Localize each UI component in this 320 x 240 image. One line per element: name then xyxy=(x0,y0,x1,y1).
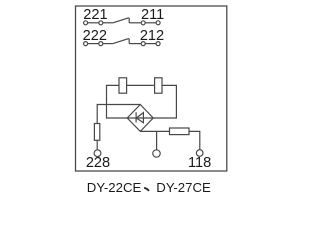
svg-text:228: 228 xyxy=(86,155,110,171)
contact row 1: wire 211 right xyxy=(145,22,156,24)
coil winding 1 xyxy=(119,78,127,93)
wire: terminal 228 branch to rectifier top xyxy=(97,105,140,124)
terminal 228 circle xyxy=(94,150,101,157)
contact row 2: wire 212 right xyxy=(145,43,156,45)
contact row 2: wire to blade xyxy=(103,43,113,45)
contact row 1: wire right xyxy=(129,22,141,24)
middle terminal circle xyxy=(153,150,160,157)
contact row 2: fixed contact tick xyxy=(128,39,130,44)
svg-text:222: 222 xyxy=(83,28,107,44)
contact row 1 terminal circles xyxy=(84,21,88,25)
svg-text:211: 211 xyxy=(141,7,164,23)
wire resistor to terminal 228 xyxy=(96,140,98,149)
diode axis line inside diamond xyxy=(127,117,153,119)
wire: right leg of coil loop xyxy=(153,85,176,118)
contact row 1: wire to blade xyxy=(103,22,113,24)
coil winding 2 xyxy=(155,78,162,93)
diode cathode bar xyxy=(135,112,137,122)
contact row 1: wire 221 left xyxy=(88,22,99,24)
wire: rectifier bottom to right xyxy=(140,130,169,132)
wire between windings xyxy=(127,84,155,86)
wire resistor to terminal 118 xyxy=(189,131,200,149)
resistor R (228 branch) xyxy=(94,124,99,141)
svg-text:221: 221 xyxy=(83,7,107,23)
resistor (118 branch) xyxy=(170,128,190,135)
contact row 2: wire right xyxy=(129,43,141,45)
contact row 1: fixed contact tick xyxy=(128,18,130,23)
contact row 2 terminal circles xyxy=(84,42,88,46)
contact row 1: switch blade xyxy=(113,18,129,23)
wire: left leg of coil loop xyxy=(107,85,128,118)
wire: drop to middle terminal xyxy=(156,131,158,149)
caption ideographic comma xyxy=(145,188,149,190)
rectifier bridge diamond xyxy=(127,105,153,132)
diode triangle xyxy=(136,113,143,123)
svg-text:118: 118 xyxy=(188,155,211,171)
contact row 2: switch blade xyxy=(113,39,129,44)
svg-text:212: 212 xyxy=(140,28,164,44)
svg-text:DY-22CE: DY-22CE xyxy=(87,180,142,195)
svg-text:DY-27CE: DY-27CE xyxy=(156,180,211,195)
terminal 118 circle xyxy=(196,150,203,157)
contact row 2: wire 222 left xyxy=(88,43,99,45)
relay case outline xyxy=(76,6,227,171)
